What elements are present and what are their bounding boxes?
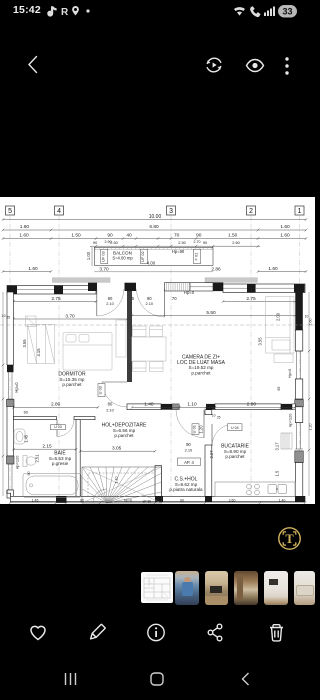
door label U 03 baie xyxy=(51,425,66,430)
right window upper xyxy=(295,351,303,379)
svg-text:p.parchet: p.parchet xyxy=(114,433,134,438)
interior wall camera-south band1 xyxy=(127,404,161,410)
dim row2 1.60/6.80/1.60 xyxy=(2,229,308,232)
svg-text:2.10: 2.10 xyxy=(106,301,114,306)
thumbnail photo 6 xyxy=(294,571,315,605)
dim 3.70 dormitor width xyxy=(12,318,128,321)
right wall column mid xyxy=(295,399,304,406)
top wall column right-mid xyxy=(247,284,256,293)
wardrobe dormitor xyxy=(28,324,55,363)
svg-text:90: 90 xyxy=(203,240,208,245)
interior wall pier right xyxy=(281,404,292,410)
svg-text:1.60: 1.60 xyxy=(268,266,278,272)
dim 2.15 baie xyxy=(12,448,77,451)
interior wall cs-bucatarie xyxy=(205,445,212,496)
grid axis 4 dash-dot line xyxy=(58,215,60,499)
svg-text:S=4.00 mp: S=4.00 mp xyxy=(112,255,133,260)
left wall column mid xyxy=(7,399,15,406)
dim 1.00 vertical left of balcony xyxy=(91,247,93,266)
bottom wall pier mid xyxy=(155,496,163,501)
svg-text:80: 80 xyxy=(108,402,113,407)
svg-text:F 01: F 01 xyxy=(193,253,198,261)
back chevron xyxy=(24,55,40,74)
door label U 03 vertical xyxy=(98,384,105,397)
sofa camera xyxy=(266,297,295,353)
svg-text:2.70: 2.70 xyxy=(194,240,201,244)
svg-text:1.50: 1.50 xyxy=(228,233,238,239)
svg-text:2.80: 2.80 xyxy=(51,402,61,408)
svg-text:20: 20 xyxy=(299,312,303,316)
svg-text:10: 10 xyxy=(2,314,6,318)
svg-text:70: 70 xyxy=(172,296,177,301)
balcony outline xyxy=(94,247,213,265)
recents xyxy=(66,673,76,685)
svg-text:10.00: 10.00 xyxy=(149,214,162,220)
grid axis 2 dash-dot line xyxy=(250,215,252,499)
svg-text:1.40: 1.40 xyxy=(279,499,286,503)
dim 5.50 camera width xyxy=(131,314,297,317)
svg-text:2.27: 2.27 xyxy=(209,450,214,459)
svg-text:Hp=90: Hp=90 xyxy=(172,249,185,254)
right wall column low xyxy=(295,451,304,463)
stairs winder xyxy=(82,467,162,503)
status bar xyxy=(0,0,315,30)
svg-text:70: 70 xyxy=(174,233,180,239)
svg-text:U 03: U 03 xyxy=(98,386,103,394)
svg-text:2.15: 2.15 xyxy=(42,443,52,449)
left vertical dim line xyxy=(2,292,4,496)
bottom left corner step xyxy=(7,490,11,496)
balcony door label UF 03 xyxy=(101,249,108,263)
right wall upper black xyxy=(295,292,303,330)
bottom wall pier cs xyxy=(205,496,212,501)
svg-text:2.86: 2.86 xyxy=(211,266,221,272)
svg-text:3.70: 3.70 xyxy=(65,313,75,319)
svg-text:2.50: 2.50 xyxy=(110,240,118,245)
back xyxy=(243,673,249,685)
grid axis bubble 3 xyxy=(167,206,176,215)
dot xyxy=(86,9,89,12)
grid axis 3 dash-dot line xyxy=(170,215,172,499)
baie door leaf and arc xyxy=(56,420,58,437)
eye icon xyxy=(245,58,265,73)
svg-text:6.80: 6.80 xyxy=(149,224,159,230)
svg-text:2.51: 2.51 xyxy=(34,454,39,463)
dresser dormitor xyxy=(116,320,126,357)
right wall lower xyxy=(295,463,303,497)
interior wall camera-south band2 xyxy=(215,404,281,410)
svg-text:1.45: 1.45 xyxy=(32,499,39,503)
music note icon xyxy=(47,6,56,16)
grid axis bubble 1 xyxy=(295,206,304,215)
left wall black cap xyxy=(7,365,14,372)
svg-text:1.00: 1.00 xyxy=(86,251,91,260)
svg-text:Hp=0: Hp=0 xyxy=(184,290,195,295)
svg-text:5: 5 xyxy=(8,208,12,215)
svg-text:2.50: 2.50 xyxy=(178,240,186,245)
svg-text:U 01: U 01 xyxy=(192,425,197,433)
svg-text:p.piatra naturala: p.piatra naturala xyxy=(169,487,203,492)
top wall middle pier B xyxy=(125,283,137,291)
svg-text:90: 90 xyxy=(80,499,84,503)
svg-text:Hp=0: Hp=0 xyxy=(287,368,292,378)
svg-text:1.50: 1.50 xyxy=(71,233,81,239)
dim 1.60 right eave xyxy=(257,270,308,273)
svg-text:1.60: 1.60 xyxy=(19,233,29,239)
radiator right wall xyxy=(281,433,292,449)
right wall mid1 xyxy=(295,379,303,399)
interior wall dormitor-baie xyxy=(14,417,57,420)
svg-text:2.80: 2.80 xyxy=(247,402,257,408)
door label U 01 vertical xyxy=(192,424,199,435)
bottom wall band xyxy=(11,496,306,501)
baie toilet xyxy=(23,456,36,467)
left wall upper xyxy=(7,292,14,365)
svg-text:33: 33 xyxy=(282,7,292,17)
top wall band right of F01 xyxy=(190,283,213,291)
svg-text:1.5: 1.5 xyxy=(275,470,280,476)
balcony slab edge right xyxy=(205,278,257,282)
svg-text:Nr=9: Nr=9 xyxy=(124,499,132,503)
svg-text:p.parchet: p.parchet xyxy=(225,454,245,459)
dining table camera xyxy=(132,326,167,372)
interior wall stairs-cs xyxy=(155,466,162,497)
svg-text:p.parchet: p.parchet xyxy=(62,382,82,387)
dim 2.80 dormitor bottom xyxy=(12,406,99,409)
thumbnail photo 5 xyxy=(264,571,288,605)
svg-text:S=8.90 mp: S=8.90 mp xyxy=(224,449,247,454)
top wall window F 01 glazing xyxy=(165,283,191,291)
share icon xyxy=(208,624,222,641)
top wall middle pier C xyxy=(213,283,223,292)
top wall middle pier A xyxy=(88,283,97,291)
svg-text:2.10: 2.10 xyxy=(106,407,114,412)
svg-text:65: 65 xyxy=(277,387,281,391)
bucatarie door U04 leaf and arc xyxy=(211,424,213,446)
svg-text:UF 02: UF 02 xyxy=(140,251,145,262)
svg-text:Hp=120: Hp=120 xyxy=(288,413,293,428)
svg-text:3: 3 xyxy=(169,208,173,215)
dim 2.75 left room xyxy=(12,300,97,303)
info icon xyxy=(148,624,164,640)
svg-text:AP. 4: AP. 4 xyxy=(184,460,194,465)
door label U 04 xyxy=(228,424,243,431)
bed dormitor xyxy=(63,333,112,371)
svg-text:2.75: 2.75 xyxy=(51,296,61,302)
top wall left wing xyxy=(7,286,96,295)
thumbnail photo 3 xyxy=(205,571,229,605)
svg-text:p.parchet: p.parchet xyxy=(191,370,211,375)
svg-text:1.60: 1.60 xyxy=(280,224,290,230)
svg-text:90: 90 xyxy=(93,240,98,245)
svg-text:3.70: 3.70 xyxy=(99,266,109,272)
svg-text:2.60: 2.60 xyxy=(232,240,240,245)
svg-text:90: 90 xyxy=(186,442,191,447)
dim 3.05 hol xyxy=(79,450,156,453)
floor plan image xyxy=(0,197,315,504)
bottom wall pier left xyxy=(56,496,67,502)
svg-text:4: 4 xyxy=(57,208,61,215)
clock 15:42 xyxy=(13,4,41,16)
interior wall camera-south band3 xyxy=(292,404,295,410)
balcony window label F 01 xyxy=(193,249,200,263)
wifi calling icon xyxy=(234,7,245,11)
balcony slab edge left xyxy=(52,278,110,283)
right vertical dim line xyxy=(308,292,310,496)
gesture nav bar xyxy=(0,668,315,690)
svg-text:1.10: 1.10 xyxy=(115,476,119,483)
svg-text:2.60: 2.60 xyxy=(309,318,313,325)
left window lower xyxy=(7,464,14,490)
closet corner dormitor xyxy=(26,316,36,326)
dim row4 balcony line xyxy=(90,245,260,248)
grid axis bubble 4 xyxy=(55,206,64,215)
svg-text:40: 40 xyxy=(126,233,132,239)
svg-text:90: 90 xyxy=(196,233,202,239)
dim 2.75 right room xyxy=(222,300,297,303)
svg-text:1.20: 1.20 xyxy=(198,425,203,434)
right wall mid2 xyxy=(295,407,303,423)
svg-text:3.05: 3.05 xyxy=(112,446,122,452)
svg-text:2.00: 2.00 xyxy=(276,312,281,321)
svg-text:90: 90 xyxy=(27,471,31,475)
top wall column left-mid xyxy=(54,286,63,295)
grid axis bubble 5 xyxy=(6,206,15,215)
grid axis 5 dash-dot line xyxy=(9,215,11,499)
grid axis 1 dash-dot line xyxy=(299,215,301,499)
svg-text:S=9.62 mp: S=9.62 mp xyxy=(175,482,198,487)
battery pill 33 xyxy=(278,5,297,18)
svg-text:10: 10 xyxy=(212,413,216,417)
right window lower xyxy=(295,423,303,449)
status icons left xyxy=(44,4,104,18)
svg-text:T: T xyxy=(285,532,294,546)
svg-text:1: 1 xyxy=(298,208,302,215)
label AP 4 xyxy=(178,458,201,466)
text-scan T logo xyxy=(277,526,302,551)
svg-text:p.gresie: p.gresie xyxy=(52,461,69,466)
interior wall pier near U04 xyxy=(206,404,215,410)
svg-text:4.15: 4.15 xyxy=(36,348,41,357)
top wall corner column right xyxy=(294,284,305,293)
interior wall pier black xyxy=(161,404,172,410)
bottom wall corner right xyxy=(295,496,305,501)
svg-text:S=19.52 mp: S=19.52 mp xyxy=(189,365,214,370)
home xyxy=(151,673,163,685)
roof overhang dashed line xyxy=(0,324,315,326)
interior wall cs-bucatarie upper stub xyxy=(205,410,212,415)
signal bars xyxy=(264,7,275,17)
left wall mid xyxy=(7,406,14,456)
svg-text:25: 25 xyxy=(217,415,221,419)
svg-text:R: R xyxy=(61,7,69,18)
phone icon xyxy=(250,6,260,17)
bottom dim row xyxy=(9,502,307,505)
trash icon xyxy=(270,625,283,641)
dormitor door U03 leaf and arc xyxy=(102,381,127,383)
svg-text:U 03: U 03 xyxy=(54,425,62,429)
svg-text:2.60: 2.60 xyxy=(229,499,236,503)
baie sink xyxy=(14,429,25,444)
dim row total 10.00 xyxy=(2,218,308,221)
svg-text:S=6.56 mp: S=6.56 mp xyxy=(113,428,136,433)
left window upper xyxy=(7,372,14,399)
svg-text:1.60: 1.60 xyxy=(20,224,30,230)
svg-text:2.10: 2.10 xyxy=(185,447,193,452)
svg-text:1.45: 1.45 xyxy=(24,434,29,443)
svg-text:3.55: 3.55 xyxy=(22,339,27,348)
interior wall baie-stairs xyxy=(76,420,80,497)
thumbnail photo 4 xyxy=(234,571,258,605)
svg-text:1.60: 1.60 xyxy=(280,233,290,239)
svg-text:1.10: 1.10 xyxy=(187,402,197,408)
svg-text:S=5.53 mp: S=5.53 mp xyxy=(49,456,72,461)
toolbar xyxy=(0,30,315,90)
svg-text:Hp=120: Hp=120 xyxy=(15,455,20,470)
interior wall dormitor-camera xyxy=(127,291,132,382)
top wall right wing xyxy=(223,284,305,293)
svg-text:UF 03: UF 03 xyxy=(101,251,106,262)
rotate-play icon xyxy=(204,55,224,75)
svg-text:90: 90 xyxy=(107,233,113,239)
svg-text:5.50: 5.50 xyxy=(206,310,216,316)
kitchen counter xyxy=(215,482,295,496)
thumbnail photo 2 xyxy=(175,571,199,605)
thumbnail: floor plan selected xyxy=(141,572,173,603)
status icons right xyxy=(233,3,303,19)
pencil icon xyxy=(89,624,106,641)
heart icon xyxy=(31,626,45,639)
svg-text:25: 25 xyxy=(6,316,10,320)
svg-text:2.75: 2.75 xyxy=(246,296,256,302)
balcony door label UF 02 xyxy=(140,249,147,263)
left wall column low xyxy=(7,456,15,464)
door U01 leaf and arc xyxy=(203,410,205,438)
svg-text:2.10: 2.10 xyxy=(146,301,154,306)
svg-text:60: 60 xyxy=(24,410,29,415)
svg-text:1.40: 1.40 xyxy=(144,402,154,408)
location pin icon xyxy=(72,6,79,15)
bottom action bar xyxy=(0,620,315,648)
svg-text:3.55: 3.55 xyxy=(258,337,263,346)
svg-text:1.20: 1.20 xyxy=(309,423,313,430)
svg-text:Hp=0: Hp=0 xyxy=(14,382,19,393)
svg-text:4.00: 4.00 xyxy=(147,261,156,266)
grid axis bubble 2 xyxy=(247,206,256,215)
top wall corner column left xyxy=(7,286,17,295)
svg-text:3.17: 3.17 xyxy=(275,442,280,451)
overflow menu dots xyxy=(283,56,291,76)
dim row3 detailed xyxy=(2,237,308,240)
svg-text:2: 2 xyxy=(249,208,253,215)
interior wall pier gray xyxy=(172,404,179,410)
balcony door UF03 leaf and arc xyxy=(96,289,98,316)
dim 1.40 1.10 2.80 camera bottom xyxy=(131,406,297,409)
dim 1.60 left eave xyxy=(2,270,53,273)
right wall upper xyxy=(295,330,303,351)
balcony door UF02 leaf and arc xyxy=(164,289,166,317)
svg-text:U 04: U 04 xyxy=(231,426,239,430)
bathtub xyxy=(23,474,81,498)
svg-text:90: 90 xyxy=(180,499,184,503)
left wall bottom stub xyxy=(7,490,14,498)
svg-text:1.60: 1.60 xyxy=(28,266,38,272)
svg-text:10: 10 xyxy=(305,314,309,318)
coffee table camera xyxy=(274,354,293,363)
